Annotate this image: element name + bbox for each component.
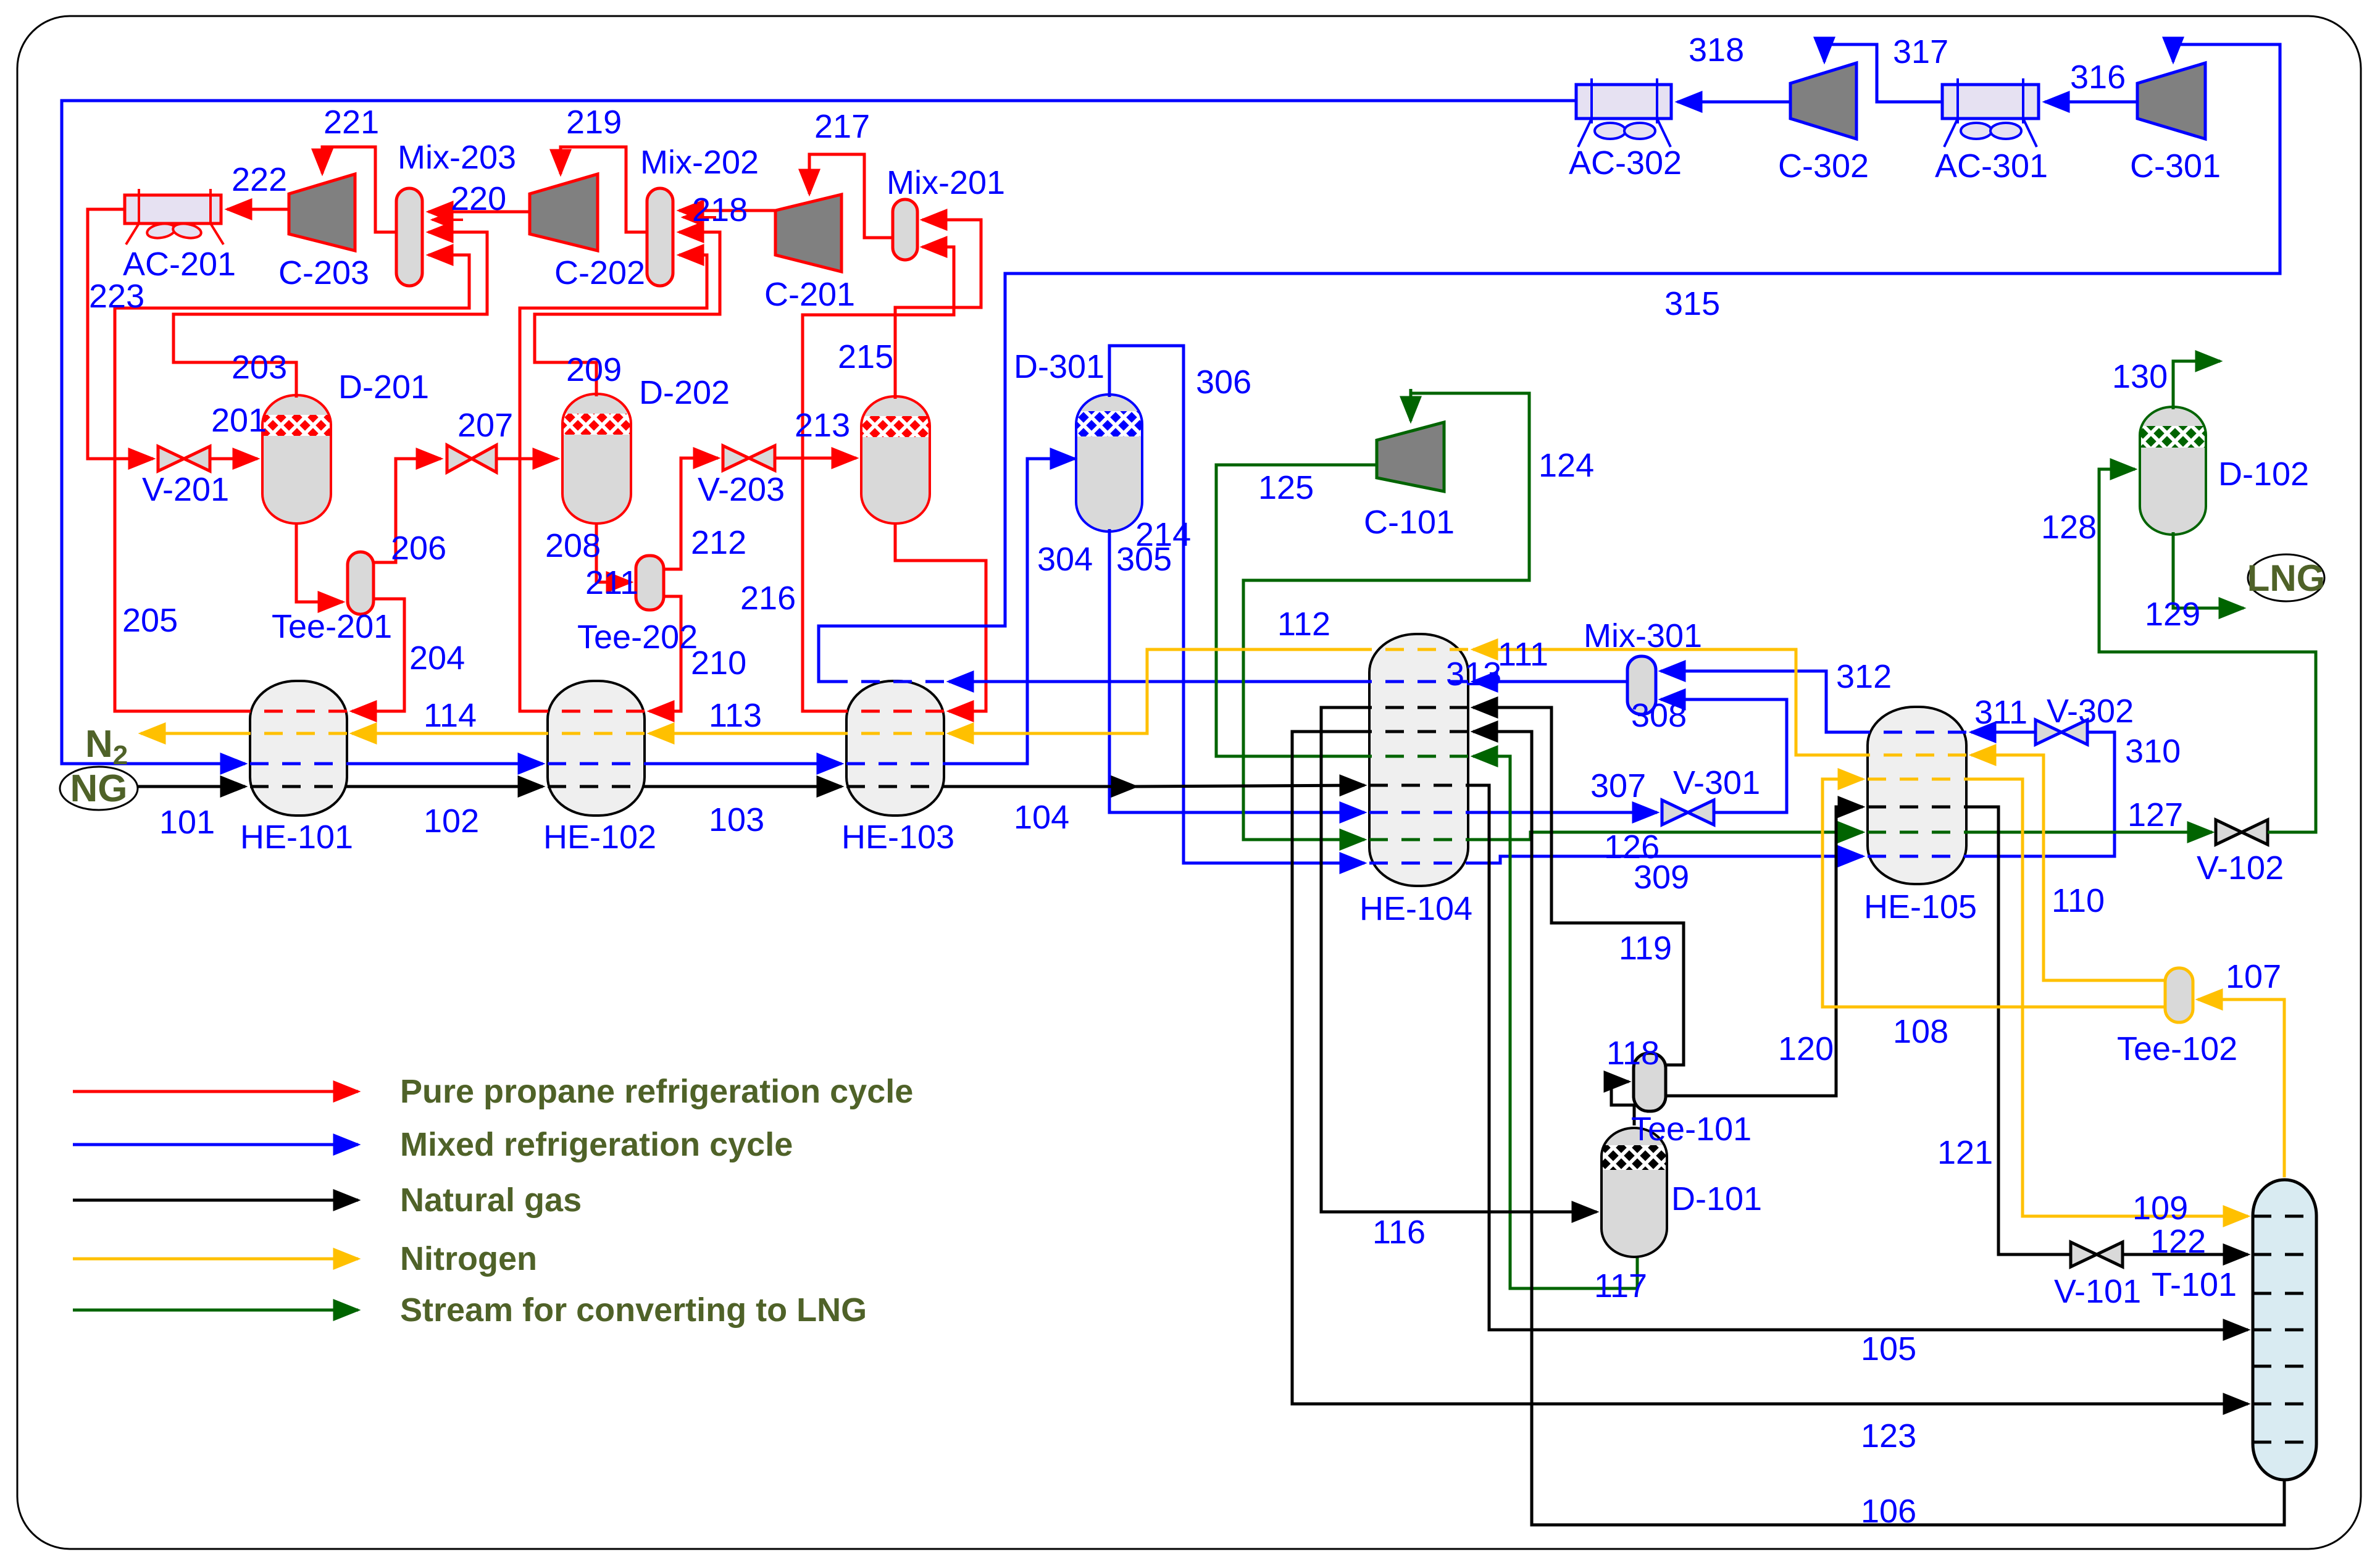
mixer Mix-301 [1627,656,1656,714]
wire 114 HE-102 to HE-101 [352,732,548,735]
wire 108 Tee-102 to HE-105 [1823,779,2165,1007]
svg-text:108: 108 [1893,1013,1948,1050]
svg-text:Tee-102: Tee-102 [2117,1030,2237,1067]
heat exchanger HE-104 shell [1369,634,1468,886]
yellow dashed pass through HE-102 [548,732,645,735]
svg-text:D-101: D-101 [1671,1180,1762,1217]
wire 116 HE-104 down to D-101 [1321,707,1597,1212]
wire 318 C-302 to AC-302 [1677,101,1790,104]
svg-text:121: 121 [1937,1134,1993,1171]
svg-text:103: 103 [709,801,764,838]
wire 218 C-201 to Mix-202 [679,209,775,212]
svg-text:310: 310 [2125,733,2181,770]
column T-101 internal stage dash y=2032 [2253,1253,2316,1256]
svg-text:305: 305 [1116,541,1172,578]
wire 118 D-101 top to Tee-101 [1611,1082,1634,1125]
legend: natural gas [73,1199,358,1202]
svg-text:318: 318 [1689,31,1744,69]
wire 124 C-101 top loop down to HE-104 [1243,393,1529,840]
green dashed 124-126 pass through HE-104 [1369,838,1468,841]
compressor C-201 [775,194,841,272]
svg-text:Tee-101: Tee-101 [1631,1111,1752,1148]
svg-text:217: 217 [814,108,870,145]
svg-text:Mixed refrigeration cycle: Mixed refrigeration cycle [400,1126,793,1163]
wire 309 HE-104 to HE-105 [1468,856,1863,863]
svg-text:N2: N2 [85,723,128,770]
black dashed pass through HE-103 [846,785,944,788]
svg-text:207: 207 [457,407,513,444]
node NG feed oval [60,767,138,810]
svg-text:Mix-202: Mix-202 [640,144,759,181]
wire 129 D-102 bottom to LNG [2173,532,2244,608]
svg-text:125: 125 [1258,469,1314,506]
wire 125 HE-104 to C-101 [1216,465,1376,756]
black dashed 106-123 pass through HE-104 [1369,730,1468,733]
svg-text:127: 127 [2127,796,2183,833]
svg-text:Stream for converting to LNG: Stream for converting to LNG [400,1292,867,1329]
svg-text:117: 117 [1594,1267,1647,1304]
wire 318/main MR line AC-302 west along top and down to HE-101 [62,101,1576,764]
wire 210 Tee-202 to HE-102 [649,596,681,711]
black dashed pass through HE-102 [548,785,645,788]
wire 103 blue segment HE-102 to HE-103 [645,762,841,766]
svg-text:Natural gas: Natural gas [400,1182,582,1219]
svg-text:102: 102 [424,803,479,840]
wire 305 D-301 bottom down to HE-104 [1109,529,1364,812]
svg-text:219: 219 [566,104,622,141]
svg-text:Mix-201: Mix-201 [887,164,1005,201]
blue dashed pass through HE-103 [846,762,944,766]
svg-text:313: 313 [1446,656,1501,693]
svg-text:D-301: D-301 [1014,348,1104,385]
wire 130 D-102 top product [2173,361,2220,409]
wire 221 Mix-203 to C-203 [322,147,396,232]
svg-text:317: 317 [1893,33,1948,70]
svg-text:Mix-301: Mix-301 [1584,617,1702,654]
wire 203 D-201 top to Mix-203 [173,232,487,398]
blue dashed pass through HE-102 [548,762,645,766]
svg-text:AC-301: AC-301 [1935,148,2048,185]
svg-text:308: 308 [1631,697,1687,734]
mixer Mix-203 [396,188,422,286]
mixer Mix-201 [893,199,917,260]
svg-text:C-201: C-201 [764,276,855,313]
yellow dashed pass through HE-103 [846,732,944,735]
wire 127 HE-105 to V-102 [1966,831,2212,834]
heat exchanger HE-103 shell [846,681,944,816]
wire 112 HE-104 to HE-103 [949,649,1369,733]
svg-text:T-101: T-101 [2152,1266,2237,1303]
wire 208 D-202 bottom to Tee-202 [596,522,631,582]
svg-text:122: 122 [2150,1223,2206,1260]
svg-text:D-201: D-201 [338,369,429,406]
svg-text:D-102: D-102 [2218,456,2309,493]
svg-text:123: 123 [1861,1417,1916,1454]
blue dashed 311-312 pass through HE-105 [1868,731,1966,734]
green dashed 117-125 pass through HE-104 [1369,755,1468,758]
blue dashed 309 pass through HE-104 [1369,862,1468,865]
wire 304 HE-103 to D-301 [944,459,1075,764]
svg-text:HE-103: HE-103 [841,819,954,856]
wire 311 V-302 into HE-105 [1971,731,2035,734]
svg-text:221: 221 [324,104,379,141]
wire 102 HE-101 to HE-102 [347,785,543,788]
wire 106 T-101 bottom around to HE-104 [1473,732,2284,1525]
tee Tee-102 [2165,968,2193,1022]
valve V-201 [158,446,210,471]
svg-text:V-203: V-203 [698,471,785,508]
red dashed pass through HE-103 [846,710,944,713]
wire 215 third drum top to Mix-201 [895,220,981,399]
svg-text:222: 222 [232,161,287,198]
svg-text:304: 304 [1037,541,1093,578]
wire 109 HE-105 down to T-101 [1966,779,2248,1216]
wire 202 D-201 bottom to Tee-201 [296,522,343,602]
legend: mixed refrigeration cycle [73,1143,358,1146]
wire 211 HE-102 red return to Mix-202 [520,255,707,711]
wire 104 HE-103 to HE-104 [944,785,1136,788]
svg-text:V-201: V-201 [142,471,229,508]
wire 105 HE-104 down to T-101 [1468,785,2248,1330]
svg-text:C-301: C-301 [2130,148,2221,185]
svg-text:111: 111 [1498,636,1548,673]
wire 312 HE-105 to Mix-301 [1661,671,1868,732]
svg-text:205: 205 [122,602,178,639]
svg-text:118: 118 [1606,1035,1660,1072]
svg-text:218: 218 [692,191,748,228]
wire 212 Tee-202 to V-203 [664,458,718,569]
svg-text:306: 306 [1196,364,1251,401]
svg-text:Tee-201: Tee-201 [272,608,392,645]
compressor C-203 [289,174,355,251]
svg-text:201: 201 [211,402,267,439]
svg-text:211: 211 [585,564,638,601]
heat exchanger HE-105 shell [1868,707,1966,884]
black dashed 104-105 pass through HE-104 [1369,784,1468,787]
wire 120 Tee-101 to HE-105 [1666,807,1863,1096]
wire 213 V-203 to third drum [775,457,856,460]
svg-text:315: 315 [1664,285,1720,322]
svg-text:209: 209 [566,351,622,388]
svg-text:106: 106 [1861,1493,1916,1530]
svg-text:112: 112 [1277,606,1330,643]
wire 217 Mix-201 to C-201 [809,154,893,238]
svg-text:216: 216 [740,580,796,617]
svg-text:C-302: C-302 [1778,148,1869,185]
svg-text:AC-302: AC-302 [1569,144,1682,182]
column T-101 internal stage dash y=2336 [2253,1441,2316,1444]
svg-text:V-302: V-302 [2047,693,2134,730]
wire 101 NG to HE-101 [138,785,245,788]
svg-text:312: 312 [1836,658,1892,695]
column T-101 internal stage dash y=2213 [2253,1365,2316,1368]
red dashed pass through HE-102 [548,710,645,713]
svg-text:213: 213 [795,407,850,444]
wire 316 C-301 to AC-301 [2045,101,2137,104]
mixer Mix-202 [647,188,673,286]
tee Tee-202 [636,556,664,610]
heat exchanger HE-102 shell [548,681,645,816]
wire 205 HE-101 red return to Mix-203 [115,255,469,711]
svg-text:V-102: V-102 [2197,849,2284,887]
svg-text:311: 311 [1974,694,2027,731]
svg-text:NG: NG [70,767,128,810]
svg-text:HE-101: HE-101 [240,819,353,856]
wire 308 V-301 to Mix-301 [1661,699,1787,812]
valve V-102 [2216,820,2268,845]
wire 207 V-202 to D-202 [496,457,557,461]
tee Tee-101 [1634,1053,1666,1111]
black dashed pass through HE-101 [250,785,347,788]
svg-text:101: 101 [159,804,215,841]
svg-text:110: 110 [2052,882,2105,919]
svg-text:C-202: C-202 [554,254,645,291]
svg-text:124: 124 [1539,447,1594,484]
wire 317 AC-301 to C-302 [1824,44,1942,102]
svg-text:316: 316 [2070,59,2126,96]
svg-text:D-202: D-202 [639,374,730,411]
svg-text:119: 119 [1619,930,1672,967]
svg-text:Pure propane refrigeration cyc: Pure propane refrigeration cycle [400,1073,913,1110]
wire 220 C-202 to Mix-203 [428,211,530,214]
svg-text:120: 120 [1778,1030,1834,1067]
wire 310 HE-105 up to V-302 [1966,732,2115,856]
column T-101 internal stage dash y=2274 [2253,1403,2316,1406]
svg-text:206: 206 [391,530,446,567]
wire 307 HE-104 to V-301 [1468,811,1657,814]
svg-text:HE-105: HE-105 [1864,888,1977,925]
wire 113 HE-103 to HE-102 [649,732,846,735]
wire 315 HE-103 up and across to C-301 [819,44,2280,682]
yellow dashed 110-111 pass through HE-105 [1868,754,1966,757]
wire 306 D-301 top over and down to HE-104 [1109,346,1364,863]
svg-text:105: 105 [1861,1330,1916,1367]
svg-text:C-203: C-203 [278,254,369,291]
wire 121 HE-105 down to V-101 [1966,807,2069,1254]
svg-text:309: 309 [1634,859,1689,896]
wire 206 Tee-201 to V-202 [374,459,441,562]
svg-text:223: 223 [89,278,144,315]
black dashed 120-121 pass through HE-105 [1868,806,1966,809]
wire 223 AC-201 to V-201 and into D-201 [88,209,153,459]
compressor C-202 [530,174,598,251]
wire 313 Mix-301 to HE-104 [1473,680,1627,683]
wire 201 V-201 to D-201 [210,457,257,461]
wire 216 HE-103 red return to Mix-201 [803,247,954,711]
blue dashed 310 pass through HE-105 [1868,855,1966,858]
wire 126 HE-104 to HE-105 [1468,832,1863,840]
wire 128 V-102 up to D-102 [2099,469,2316,832]
wire 122 V-101 to T-101 [2124,1253,2248,1256]
svg-text:128: 128 [2041,509,2097,546]
svg-text:129: 129 [2145,596,2200,633]
compressor C-301 [2137,63,2205,139]
legend: stream for converting to LNG [73,1309,358,1312]
column T-101 internal stage dash y=2095 [2253,1292,2316,1295]
wire 214 third drum bottom to HE-103 [895,522,986,711]
svg-text:116: 116 [1372,1214,1426,1251]
valve V-302 [2036,720,2087,745]
yellow dashed 108-109 pass through HE-105 [1868,778,1966,781]
air cooler AC-301 [1942,78,2039,147]
valve V-101 [2071,1242,2123,1267]
tee Tee-201 [348,552,374,614]
air cooler AC-302 [1576,78,1671,147]
wire 222 C-203 to AC-201 [227,208,289,211]
svg-text:104: 104 [1014,799,1069,836]
compressor C-101 [1377,422,1444,491]
valve V-203 [723,446,775,470]
column T-101 internal stage dash y=1970 [2253,1215,2316,1218]
svg-text:220: 220 [451,180,506,217]
svg-text:109: 109 [2132,1190,2188,1227]
column T-101 internal stage dash y=2154 [2253,1329,2316,1332]
wire 123 HE-104 down to T-101 [1292,732,2248,1404]
svg-text:113: 113 [709,697,762,734]
wire 219 Mix-202 to C-202 [561,147,647,232]
svg-text:114: 114 [424,697,477,734]
wire 111 HE-105 to HE-104 [1473,649,1868,755]
heat exchanger HE-101 shell [250,681,347,816]
air cooler AC-201 [125,189,223,244]
svg-text:107: 107 [2226,958,2281,995]
legend: nitrogen [73,1258,358,1261]
wire 117 D-101 bottom to HE-104 [1473,756,1637,1288]
svg-text:307: 307 [1590,767,1646,804]
svg-text:AC-201: AC-201 [123,246,236,283]
svg-text:208: 208 [545,527,601,564]
yellow dashed 111-112 pass through HE-104 [1369,648,1468,651]
green dashed 126-127 pass through HE-105 [1868,831,1966,834]
compressor C-302 [1790,63,1856,139]
svg-text:V-101: V-101 [2054,1273,2141,1310]
wire 103 HE-102 to HE-103 [645,785,841,788]
svg-text:Mix-203: Mix-203 [398,139,516,176]
wire 107 T-101 top to Tee-102 [2198,1000,2284,1177]
svg-text:210: 210 [691,645,746,682]
wire 110 Tee-102 up to HE-105 [1971,755,2165,980]
column T-101 [2253,1180,2316,1480]
svg-text:Tee-202: Tee-202 [577,619,698,656]
svg-text:Nitrogen: Nitrogen [400,1240,537,1277]
wire 119 Tee-101 up to HE-104 [1473,707,1684,1065]
svg-text:HE-102: HE-102 [543,819,656,856]
svg-text:130: 130 [2112,358,2168,395]
red dashed pass through HE-101 [250,710,347,713]
valve V-202 (unlabeled) [447,445,496,472]
svg-text:203: 203 [232,349,287,386]
wire N2 product out of HE-101 [141,732,250,735]
legend: pure propane refrigeration cycle [73,1090,358,1093]
wire 209 D-202 top to Mix-202 [535,232,720,396]
blue dashed pass through HE-101 [250,762,347,766]
svg-text:C-101: C-101 [1364,504,1455,541]
svg-text:V-301: V-301 [1673,764,1760,801]
wire 314 HE-104 to HE-103 [949,680,1369,683]
black dashed 119-116 pass through HE-104 [1369,706,1468,709]
svg-text:LNG: LNG [2247,557,2326,599]
yellow dashed pass through HE-101 [250,732,347,735]
wire 204 Tee-201 to HE-101 [352,599,404,711]
svg-text:HE-104: HE-104 [1359,890,1472,927]
svg-text:212: 212 [691,524,746,561]
svg-text:204: 204 [409,640,465,677]
blue dashed 313-314 pass through HE-104 [1369,680,1468,683]
wire 102 blue segment HE-101 to HE-102 [347,762,543,766]
node LNG product oval [2248,554,2324,601]
valve V-301 [1662,800,1714,825]
blue dashed 314 pass through HE-103 [846,680,944,683]
blue dashed 307 pass through HE-104 [1369,811,1468,814]
svg-text:215: 215 [838,338,893,375]
